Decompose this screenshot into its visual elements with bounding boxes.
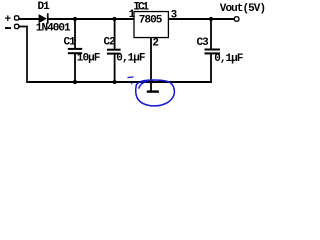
svg-text:1N4001: 1N4001 (36, 23, 71, 35)
junction node C1 top (73, 17, 77, 21)
svg-text:C1: C1 (64, 37, 77, 49)
svg-text:7805: 7805 (139, 15, 163, 27)
ground symbol (147, 90, 159, 92)
svg-text:C3: C3 (197, 37, 210, 49)
terminal - input (15, 24, 19, 28)
svg-text:10µF: 10µF (77, 52, 100, 64)
junction node C1 bottom (73, 80, 77, 84)
wire + terminal to diode anode (19, 18, 39, 20)
wire IC pin 2 to ground (150, 38, 152, 91)
wire diode cathode to IC pin 1 (49, 18, 135, 20)
capacitor C1 (68, 49, 82, 53)
annotation: blue speck (131, 83, 132, 84)
svg-text:2: 2 (152, 38, 158, 50)
junction node C3 top (209, 17, 213, 21)
svg-text:C2: C2 (104, 37, 116, 49)
junction node C2 bottom (113, 80, 117, 84)
svg-text:Vout(5V): Vout(5V) (220, 3, 265, 15)
wire junction to C1 top plate (74, 19, 76, 48)
junction node C2 top (112, 17, 116, 21)
capacitor C2 (107, 50, 121, 54)
wire IC pin 3 to output terminal (169, 18, 235, 20)
junction node pin2 / rail (149, 79, 153, 83)
wire junction to C2 top plate (114, 19, 116, 49)
wire bottom ground rail (26, 81, 212, 83)
wire - terminal to bottom rail (19, 27, 27, 83)
wire C1 bottom plate to ground rail (74, 53, 76, 82)
wire C2 bottom plate to ground rail (114, 54, 116, 82)
diode D1 1N4001 (39, 13, 49, 23)
svg-text:0,1µF: 0,1µF (214, 53, 243, 65)
svg-text:D1: D1 (38, 1, 51, 13)
terminal Vout output (234, 17, 239, 22)
annotation: blue highlight ellipse around ground (128, 77, 175, 106)
capacitor C3 (205, 50, 221, 54)
wire C3 bottom plate to ground rail (210, 53, 212, 83)
svg-text:0,1µF: 0,1µF (116, 52, 145, 64)
terminal + input (15, 16, 19, 20)
label - (negative input) (5, 27, 11, 29)
IC1 7805 regulator body (134, 12, 168, 38)
wire junction to C3 top plate (210, 19, 212, 49)
